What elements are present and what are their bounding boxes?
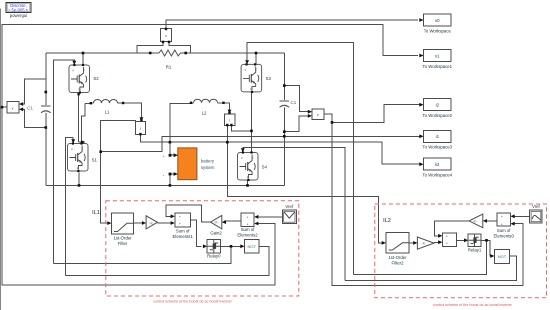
svg-text:Sum of: Sum of bbox=[176, 229, 190, 234]
svg-text:To Workspace3: To Workspace3 bbox=[423, 145, 453, 150]
svg-text:i1: i1 bbox=[436, 134, 440, 139]
svg-text:IL1: IL1 bbox=[92, 210, 100, 216]
svg-text:S2: S2 bbox=[93, 76, 99, 81]
svg-text:To Workspace1: To Workspace1 bbox=[423, 64, 453, 69]
svg-text:system: system bbox=[201, 165, 215, 170]
svg-text:C1: C1 bbox=[291, 100, 297, 105]
svg-text:L2: L2 bbox=[202, 110, 207, 115]
svg-text:To Workspace2: To Workspace2 bbox=[423, 113, 453, 118]
svg-text:NOT: NOT bbox=[498, 254, 507, 259]
svg-text:v1: v1 bbox=[435, 53, 440, 58]
svg-text:control scheme of the boost dc: control scheme of the boost dc-ac boost … bbox=[433, 303, 512, 307]
svg-text:+: + bbox=[247, 215, 249, 219]
svg-text:+: + bbox=[179, 215, 181, 219]
svg-text:+: + bbox=[501, 215, 503, 219]
svg-text:To Workspace: To Workspace bbox=[424, 28, 452, 33]
svg-text:IL2: IL2 bbox=[383, 218, 391, 224]
svg-text:ii2: ii2 bbox=[435, 162, 440, 167]
svg-text:v: v bbox=[12, 107, 14, 111]
svg-text:-K-: -K- bbox=[421, 242, 427, 246]
svg-text:L1: L1 bbox=[105, 109, 110, 114]
svg-text:-K-: -K- bbox=[472, 219, 478, 223]
svg-text:v0: v0 bbox=[435, 18, 440, 23]
svg-text:Sum of: Sum of bbox=[241, 227, 255, 232]
svg-text:Elements0: Elements0 bbox=[494, 234, 515, 239]
svg-text:-K-: -K- bbox=[149, 221, 155, 225]
svg-text:v: v bbox=[165, 34, 167, 38]
svg-text:+: + bbox=[446, 235, 448, 239]
svg-text:NOT: NOT bbox=[247, 244, 256, 249]
svg-text:Elements2: Elements2 bbox=[237, 232, 258, 237]
svg-text:Elements1: Elements1 bbox=[173, 234, 194, 239]
svg-text:+: + bbox=[446, 242, 448, 246]
svg-text:battery: battery bbox=[201, 158, 215, 163]
svg-text:1st-Order: 1st-Order bbox=[388, 255, 407, 260]
svg-text:Filter: Filter bbox=[118, 241, 128, 246]
svg-text:v: v bbox=[317, 113, 319, 117]
svg-text:Sum of: Sum of bbox=[497, 228, 511, 233]
svg-text:Relay1: Relay1 bbox=[468, 247, 482, 252]
svg-text:C1: C1 bbox=[27, 106, 33, 111]
svg-text:+: + bbox=[501, 222, 503, 226]
svg-text:Vref: Vref bbox=[285, 204, 294, 209]
svg-text:Filter2: Filter2 bbox=[392, 261, 405, 266]
svg-text:S4: S4 bbox=[262, 164, 268, 169]
svg-text:Vref: Vref bbox=[532, 204, 541, 209]
svg-text:+: + bbox=[179, 222, 181, 226]
svg-text:S3: S3 bbox=[266, 76, 272, 81]
svg-text:R1: R1 bbox=[166, 65, 172, 70]
svg-text:Relay0: Relay0 bbox=[207, 254, 221, 259]
svg-text:= 5e-005 s.: = 5e-005 s. bbox=[8, 8, 29, 13]
svg-text:To Workspace4: To Workspace4 bbox=[423, 173, 453, 178]
svg-text:Gain2: Gain2 bbox=[210, 230, 222, 235]
svg-text:+: + bbox=[247, 223, 249, 227]
svg-text:-K-: -K- bbox=[214, 221, 220, 225]
svg-text:control scheme of the boost dc: control scheme of the boost dc-ac boost … bbox=[153, 300, 232, 304]
svg-text:1st-Order: 1st-Order bbox=[114, 236, 133, 241]
svg-text:powergui: powergui bbox=[10, 13, 27, 18]
svg-text:i2: i2 bbox=[436, 103, 440, 108]
svg-text:S1: S1 bbox=[92, 158, 98, 163]
